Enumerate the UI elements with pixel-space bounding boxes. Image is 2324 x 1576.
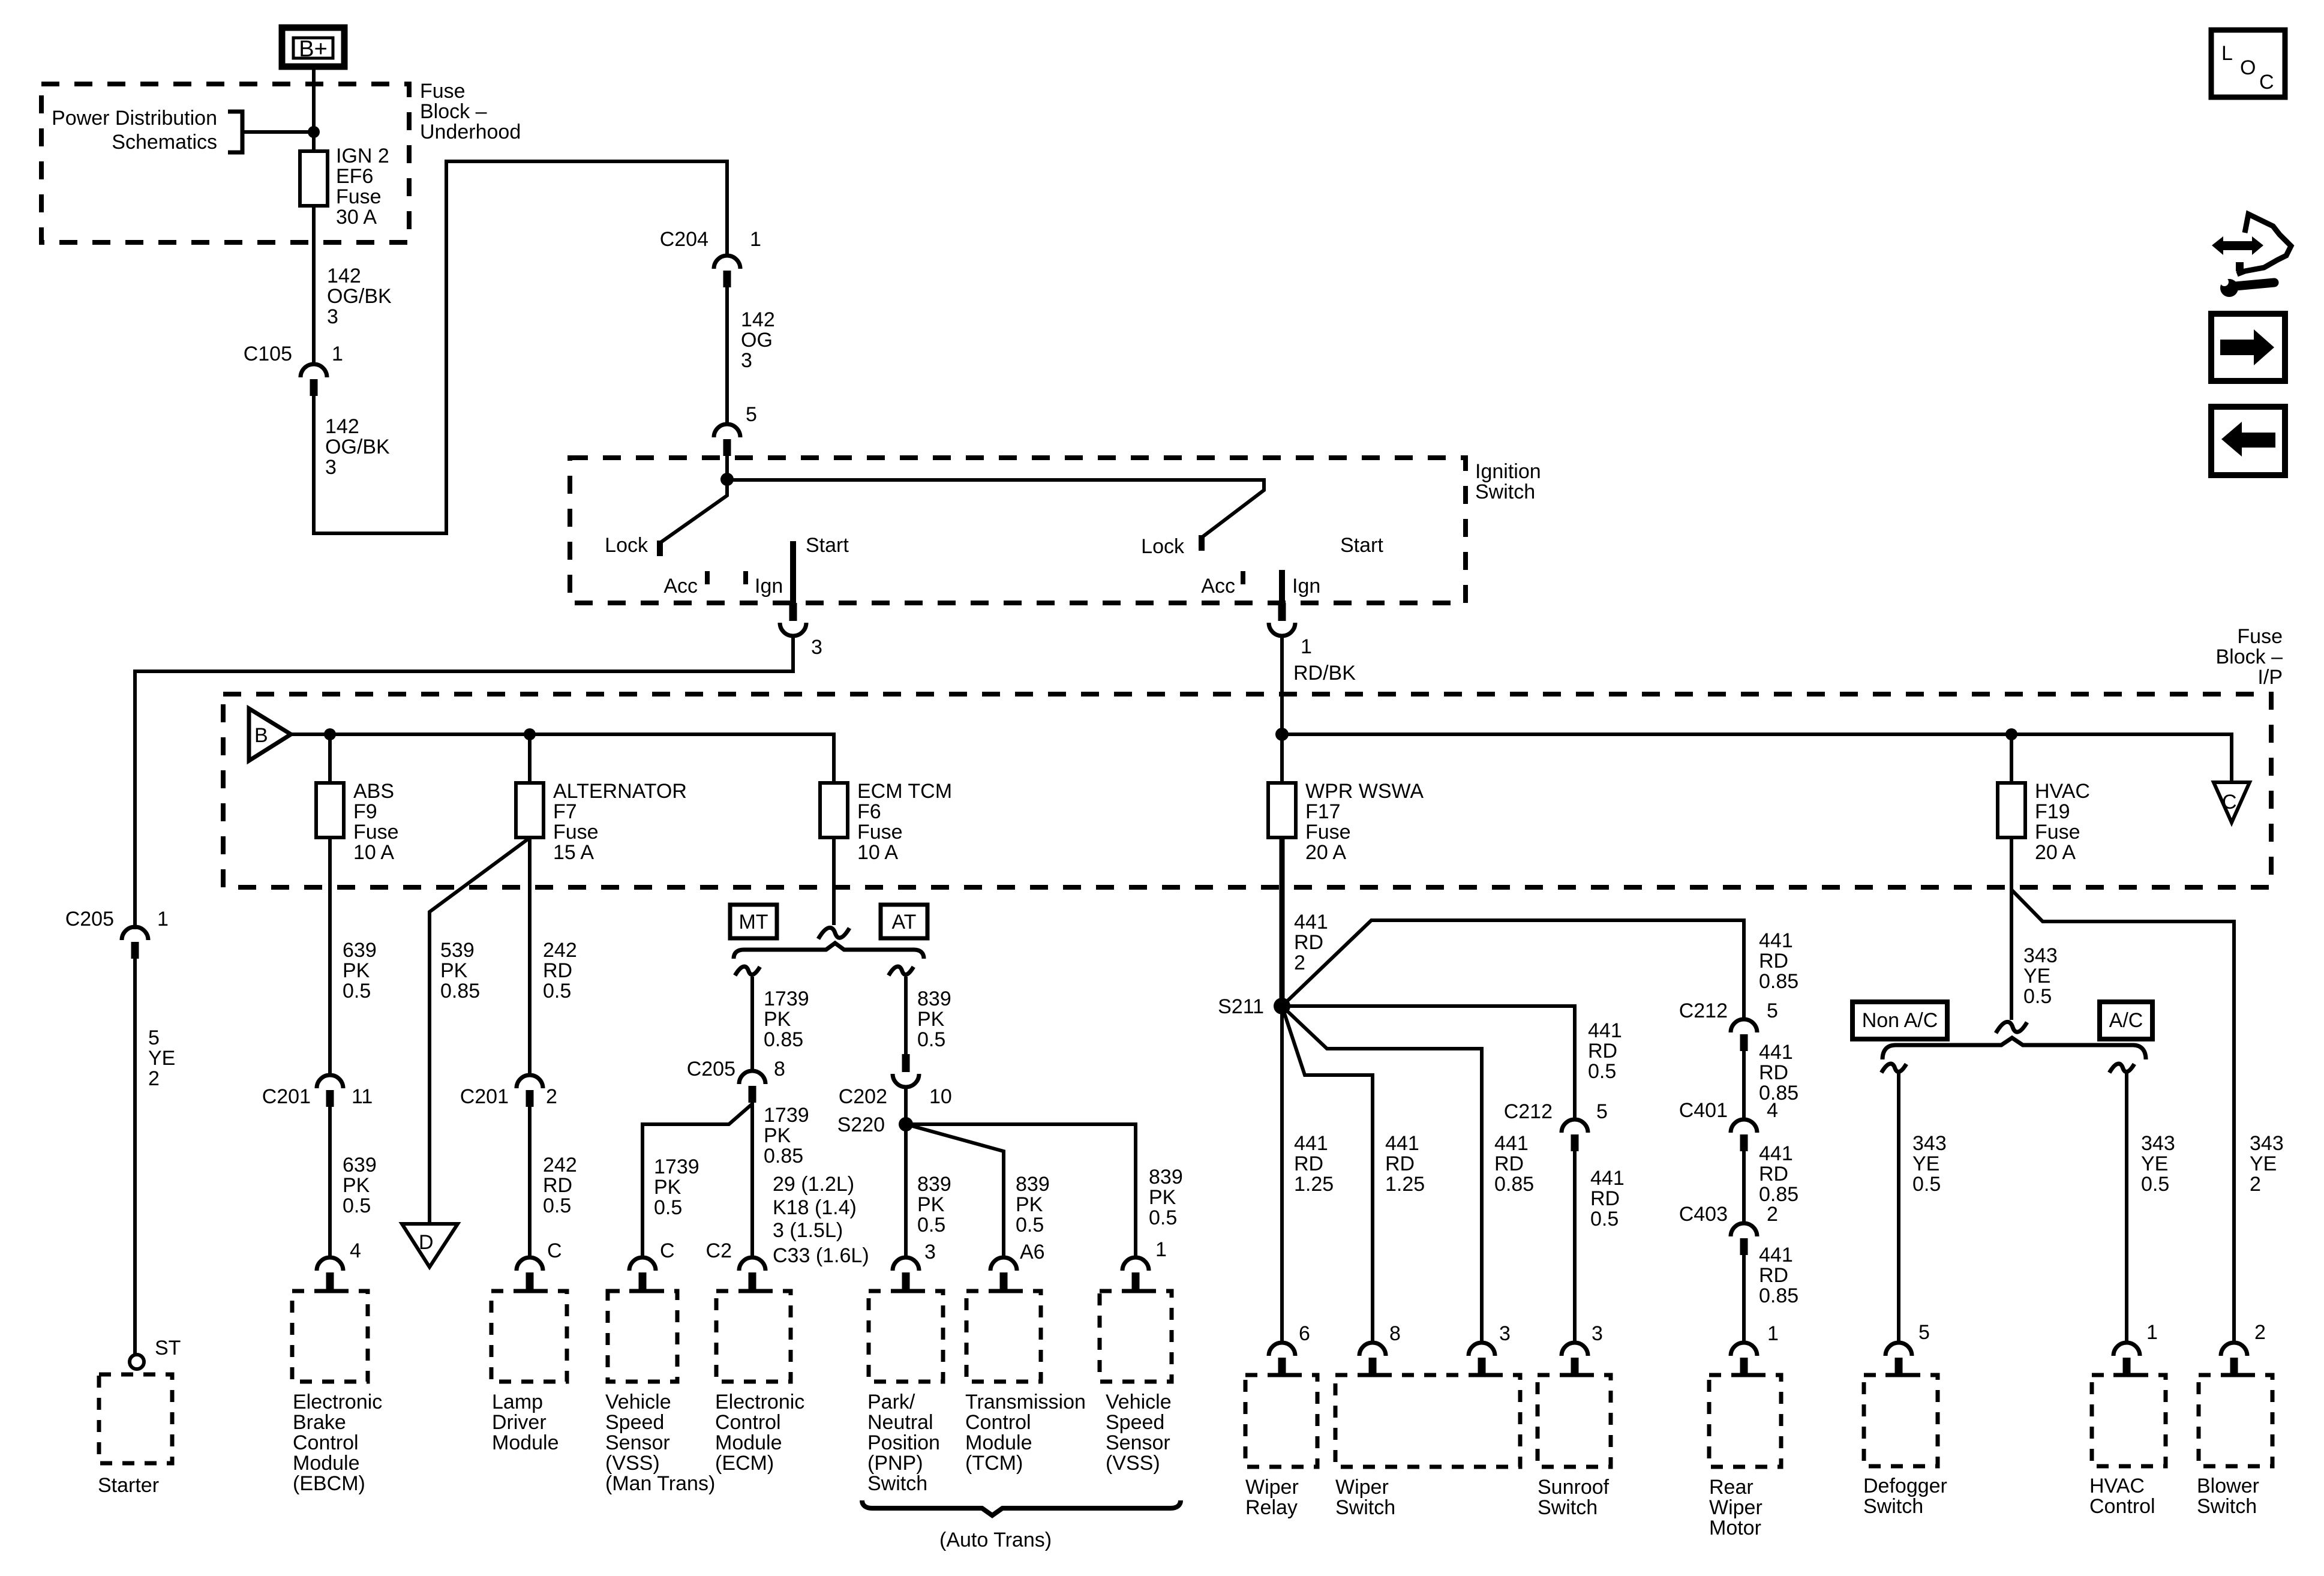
- svg-text:3: 3: [327, 305, 338, 328]
- svg-text:1: 1: [1155, 1238, 1167, 1261]
- svg-text:Fuse: Fuse: [336, 185, 382, 208]
- svg-text:Vehicle: Vehicle: [605, 1391, 671, 1413]
- svg-text:(EBCM): (EBCM): [293, 1472, 365, 1495]
- svg-text:Rear: Rear: [1709, 1476, 1753, 1499]
- svg-text:PK: PK: [1149, 1186, 1176, 1209]
- svg-text:Sunroof: Sunroof: [1538, 1476, 1610, 1499]
- svg-text:0.5: 0.5: [543, 980, 571, 1002]
- svg-text:5: 5: [148, 1026, 160, 1049]
- svg-text:4: 4: [1767, 1099, 1778, 1122]
- svg-text:(TCM): (TCM): [965, 1452, 1023, 1475]
- svg-text:Acc: Acc: [1201, 575, 1235, 598]
- svg-text:0.5: 0.5: [654, 1196, 682, 1219]
- svg-text:441: 441: [1385, 1132, 1419, 1155]
- svg-text:C205: C205: [65, 908, 114, 930]
- svg-text:2: 2: [546, 1085, 557, 1108]
- svg-text:C403: C403: [1679, 1203, 1728, 1226]
- svg-text:B: B: [254, 724, 268, 747]
- svg-text:10 A: 10 A: [353, 841, 394, 864]
- svg-text:1: 1: [1767, 1322, 1779, 1345]
- svg-text:0.85: 0.85: [1759, 970, 1798, 993]
- svg-text:2: 2: [1294, 951, 1305, 974]
- svg-text:HVAC: HVAC: [2035, 780, 2090, 803]
- svg-text:2: 2: [2254, 1321, 2266, 1344]
- svg-text:ALTERNATOR: ALTERNATOR: [553, 780, 687, 803]
- svg-text:0.85: 0.85: [1494, 1173, 1534, 1196]
- svg-text:5: 5: [1596, 1100, 1608, 1123]
- svg-text:441: 441: [1494, 1132, 1529, 1155]
- svg-text:839: 839: [917, 1173, 951, 1196]
- svg-text:0.5: 0.5: [1590, 1208, 1619, 1230]
- svg-text:Control: Control: [293, 1431, 359, 1454]
- svg-text:Driver: Driver: [492, 1411, 547, 1434]
- svg-text:10 A: 10 A: [857, 841, 898, 864]
- svg-text:Control: Control: [965, 1411, 1031, 1434]
- svg-text:1: 1: [2146, 1321, 2158, 1344]
- svg-text:(VSS): (VSS): [1106, 1452, 1160, 1475]
- svg-text:242: 242: [543, 939, 577, 962]
- svg-text:F19: F19: [2035, 800, 2070, 823]
- svg-text:2: 2: [1767, 1203, 1778, 1226]
- svg-text:C105: C105: [244, 343, 292, 365]
- svg-text:441: 441: [1759, 1041, 1793, 1064]
- svg-text:RD: RD: [1385, 1152, 1415, 1175]
- svg-text:441: 441: [1759, 929, 1793, 952]
- svg-text:RD: RD: [1759, 1163, 1788, 1185]
- svg-text:RD: RD: [1590, 1187, 1620, 1210]
- svg-text:ECM TCM: ECM TCM: [857, 780, 952, 803]
- svg-text:Park/: Park/: [867, 1391, 915, 1413]
- svg-text:Lock: Lock: [1141, 535, 1185, 558]
- svg-text:Speed: Speed: [605, 1411, 664, 1434]
- svg-text:PK: PK: [917, 1193, 945, 1216]
- svg-text:142: 142: [741, 308, 775, 331]
- svg-text:Wiper: Wiper: [1245, 1476, 1299, 1499]
- svg-text:20 A: 20 A: [1305, 841, 1346, 864]
- svg-text:0.5: 0.5: [917, 1028, 945, 1051]
- svg-text:(PNP): (PNP): [867, 1452, 923, 1475]
- svg-text:C212: C212: [1504, 1100, 1553, 1123]
- svg-text:Power Distribution: Power Distribution: [52, 107, 217, 130]
- svg-text:RD/BK: RD/BK: [1293, 662, 1356, 685]
- svg-text:PK: PK: [1016, 1193, 1043, 1216]
- svg-text:PK: PK: [343, 959, 370, 982]
- svg-text:Fuse: Fuse: [2035, 821, 2080, 843]
- svg-text:441: 441: [1588, 1019, 1622, 1042]
- svg-text:3: 3: [325, 456, 337, 479]
- svg-text:Switch: Switch: [2197, 1495, 2257, 1518]
- svg-text:Ign: Ign: [1292, 575, 1320, 598]
- svg-text:C212: C212: [1679, 999, 1728, 1022]
- svg-text:YE: YE: [2141, 1152, 2168, 1175]
- svg-text:Control: Control: [2089, 1495, 2155, 1518]
- svg-text:Speed: Speed: [1106, 1411, 1164, 1434]
- svg-text:Lock: Lock: [605, 534, 648, 557]
- svg-text:5: 5: [1767, 999, 1778, 1022]
- svg-text:D: D: [419, 1231, 434, 1254]
- svg-text:1739: 1739: [764, 987, 809, 1010]
- svg-text:4: 4: [350, 1239, 361, 1262]
- svg-text:11: 11: [352, 1085, 373, 1108]
- svg-text:C: C: [2222, 791, 2237, 813]
- svg-text:6: 6: [1299, 1322, 1310, 1345]
- svg-text:1: 1: [332, 343, 343, 365]
- svg-text:441: 441: [1294, 911, 1328, 933]
- svg-text:20 A: 20 A: [2035, 841, 2076, 864]
- svg-text:C205: C205: [687, 1058, 735, 1080]
- svg-text:2: 2: [2250, 1173, 2261, 1196]
- svg-text:A6: A6: [1020, 1241, 1045, 1263]
- svg-text:343: 343: [2141, 1132, 2175, 1155]
- svg-text:C33 (1.6L): C33 (1.6L): [773, 1244, 869, 1267]
- svg-text:Schematics: Schematics: [112, 131, 217, 154]
- svg-text:PK: PK: [440, 959, 468, 982]
- svg-text:F9: F9: [353, 800, 377, 823]
- svg-text:Fuse: Fuse: [1305, 821, 1351, 843]
- svg-text:OG/BK: OG/BK: [327, 285, 392, 308]
- svg-text:Blower: Blower: [2197, 1475, 2259, 1497]
- svg-text:0.5: 0.5: [343, 1194, 371, 1217]
- svg-text:C2: C2: [706, 1239, 732, 1262]
- svg-text:0.5: 0.5: [2141, 1173, 2169, 1196]
- svg-text:0.5: 0.5: [917, 1214, 945, 1236]
- svg-text:3: 3: [1499, 1322, 1511, 1345]
- svg-text:0.5: 0.5: [2023, 985, 2052, 1008]
- svg-text:441: 441: [1759, 1244, 1793, 1266]
- svg-text:Switch: Switch: [1475, 481, 1535, 503]
- svg-text:0.85: 0.85: [440, 980, 480, 1002]
- svg-text:(ECM): (ECM): [715, 1452, 774, 1475]
- svg-text:3: 3: [924, 1241, 936, 1263]
- svg-text:30 A: 30 A: [336, 206, 377, 229]
- svg-text:Control: Control: [715, 1411, 781, 1434]
- svg-text:C201: C201: [262, 1085, 311, 1108]
- svg-text:(VSS): (VSS): [605, 1452, 660, 1475]
- svg-text:RD: RD: [1759, 950, 1788, 972]
- svg-text:Neutral: Neutral: [867, 1411, 933, 1434]
- svg-text:C: C: [660, 1239, 675, 1262]
- svg-text:5: 5: [1918, 1321, 1930, 1344]
- svg-text:Electronic: Electronic: [715, 1391, 804, 1413]
- svg-text:1739: 1739: [654, 1155, 699, 1178]
- svg-text:IGN 2: IGN 2: [336, 145, 389, 167]
- svg-text:Switch: Switch: [1335, 1496, 1395, 1519]
- svg-text:YE: YE: [2250, 1152, 2277, 1175]
- svg-text:3: 3: [1592, 1322, 1603, 1345]
- svg-text:0.5: 0.5: [543, 1194, 571, 1217]
- svg-text:Wiper: Wiper: [1709, 1496, 1762, 1519]
- svg-text:10: 10: [929, 1085, 952, 1108]
- svg-text:0.5: 0.5: [343, 980, 371, 1002]
- svg-text:RD: RD: [1759, 1061, 1788, 1084]
- svg-text:OG/BK: OG/BK: [325, 436, 390, 458]
- svg-text:142: 142: [327, 265, 361, 287]
- svg-text:8: 8: [774, 1058, 785, 1080]
- svg-text:Module: Module: [965, 1431, 1032, 1454]
- svg-text:S211: S211: [1218, 995, 1264, 1018]
- svg-text:142: 142: [325, 415, 359, 438]
- svg-text:839: 839: [1149, 1166, 1183, 1188]
- svg-text:Electronic: Electronic: [293, 1391, 382, 1413]
- svg-text:Module: Module: [492, 1431, 559, 1454]
- svg-text:839: 839: [917, 987, 951, 1010]
- svg-text:PK: PK: [654, 1176, 681, 1199]
- svg-text:1: 1: [157, 908, 169, 930]
- svg-text:RD: RD: [1588, 1040, 1617, 1062]
- svg-text:Brake: Brake: [293, 1411, 346, 1434]
- svg-text:Switch: Switch: [1538, 1496, 1598, 1519]
- svg-text:Acc: Acc: [663, 575, 698, 598]
- svg-text:S220: S220: [837, 1113, 885, 1136]
- svg-text:I/P: I/P: [2257, 666, 2283, 689]
- svg-text:0.5: 0.5: [1016, 1214, 1044, 1236]
- svg-text:HVAC: HVAC: [2089, 1475, 2145, 1497]
- svg-text:29 (1.2L): 29 (1.2L): [773, 1173, 854, 1196]
- svg-text:PK: PK: [764, 1124, 791, 1147]
- svg-text:Motor: Motor: [1709, 1517, 1761, 1539]
- svg-text:1.25: 1.25: [1294, 1173, 1334, 1196]
- svg-text:539: 539: [440, 939, 475, 962]
- svg-text:1739: 1739: [764, 1104, 809, 1127]
- svg-text:F17: F17: [1305, 800, 1341, 823]
- svg-text:Lamp: Lamp: [492, 1391, 543, 1413]
- svg-text:C: C: [2259, 71, 2274, 94]
- svg-text:343: 343: [1912, 1132, 1947, 1155]
- svg-text:3: 3: [741, 349, 752, 372]
- svg-text:8: 8: [1389, 1322, 1401, 1345]
- svg-text:Fuse: Fuse: [553, 821, 599, 843]
- svg-text:3: 3: [811, 636, 822, 659]
- svg-text:15 A: 15 A: [553, 841, 594, 864]
- svg-text:Defogger: Defogger: [1863, 1475, 1947, 1497]
- svg-text:YE: YE: [2023, 965, 2050, 987]
- svg-text:AT: AT: [892, 911, 917, 933]
- svg-text:1: 1: [750, 228, 761, 251]
- svg-text:0.5: 0.5: [1149, 1206, 1177, 1229]
- svg-text:Block –: Block –: [2216, 646, 2283, 668]
- svg-text:0.85: 0.85: [764, 1028, 803, 1051]
- svg-text:Start: Start: [806, 534, 849, 557]
- svg-text:Non A/C: Non A/C: [1862, 1009, 1938, 1032]
- svg-text:A/C: A/C: [2109, 1009, 2143, 1032]
- svg-text:441: 441: [1590, 1167, 1625, 1190]
- svg-text:RD: RD: [543, 959, 572, 982]
- svg-text:C201: C201: [460, 1085, 509, 1108]
- svg-text:(Man Trans): (Man Trans): [605, 1472, 715, 1495]
- svg-text:O: O: [2240, 56, 2256, 79]
- svg-text:C: C: [547, 1239, 562, 1262]
- svg-text:ST: ST: [155, 1337, 181, 1359]
- svg-text:Ign: Ign: [755, 575, 783, 598]
- svg-text:0.5: 0.5: [1912, 1173, 1941, 1196]
- svg-text:PK: PK: [343, 1174, 370, 1197]
- svg-text:RD: RD: [1759, 1264, 1788, 1287]
- svg-text:C202: C202: [839, 1085, 887, 1108]
- svg-text:YE: YE: [1912, 1152, 1939, 1175]
- svg-text:Fuse: Fuse: [857, 821, 903, 843]
- svg-text:Sensor: Sensor: [1106, 1431, 1170, 1454]
- svg-text:ABS: ABS: [353, 780, 394, 803]
- svg-text:0.85: 0.85: [1759, 1284, 1798, 1307]
- svg-text:Module: Module: [715, 1431, 782, 1454]
- svg-text:1: 1: [1301, 635, 1312, 658]
- svg-text:343: 343: [2023, 944, 2058, 967]
- svg-text:0.85: 0.85: [764, 1145, 803, 1167]
- svg-text:242: 242: [543, 1154, 577, 1176]
- svg-text:Fuse: Fuse: [353, 821, 399, 843]
- svg-text:C204: C204: [660, 228, 708, 251]
- svg-text:Sensor: Sensor: [605, 1431, 670, 1454]
- svg-text:Vehicle: Vehicle: [1106, 1391, 1172, 1413]
- svg-text:Start: Start: [1340, 534, 1383, 557]
- svg-text:K18 (1.4): K18 (1.4): [773, 1196, 857, 1219]
- svg-text:PK: PK: [917, 1008, 945, 1031]
- svg-text:Underhood: Underhood: [420, 121, 521, 143]
- svg-text:5: 5: [746, 403, 757, 426]
- svg-text:Fuse: Fuse: [2237, 625, 2283, 648]
- svg-text:Transmission: Transmission: [965, 1391, 1086, 1413]
- svg-text:C401: C401: [1679, 1099, 1728, 1122]
- svg-text:639: 639: [343, 939, 377, 962]
- svg-text:639: 639: [343, 1154, 377, 1176]
- svg-text:0.5: 0.5: [1588, 1060, 1616, 1083]
- svg-text:Module: Module: [293, 1452, 360, 1475]
- svg-text:B+: B+: [299, 37, 328, 62]
- svg-text:Fuse: Fuse: [420, 80, 466, 103]
- svg-text:RD: RD: [543, 1174, 572, 1197]
- svg-text:OG: OG: [741, 329, 773, 352]
- svg-text:441: 441: [1759, 1142, 1793, 1165]
- svg-text:1.25: 1.25: [1385, 1173, 1425, 1196]
- svg-text:(Auto Trans): (Auto Trans): [939, 1529, 1052, 1551]
- svg-text:RD: RD: [1494, 1152, 1524, 1175]
- svg-text:Switch: Switch: [1863, 1495, 1923, 1518]
- svg-text:L: L: [2221, 42, 2233, 65]
- svg-text:Switch: Switch: [867, 1472, 927, 1495]
- svg-text:F7: F7: [553, 800, 577, 823]
- svg-text:441: 441: [1294, 1132, 1328, 1155]
- svg-text:2: 2: [148, 1067, 160, 1090]
- svg-text:WPR WSWA: WPR WSWA: [1305, 780, 1424, 803]
- svg-text:839: 839: [1016, 1173, 1050, 1196]
- svg-text:EF6: EF6: [336, 165, 373, 188]
- svg-text:Position: Position: [867, 1431, 940, 1454]
- svg-text:MT: MT: [738, 911, 768, 933]
- svg-text:RD: RD: [1294, 1152, 1323, 1175]
- svg-text:Wiper: Wiper: [1335, 1476, 1389, 1499]
- svg-text:0.85: 0.85: [1759, 1183, 1798, 1206]
- svg-text:PK: PK: [764, 1008, 791, 1031]
- svg-text:343: 343: [2250, 1132, 2284, 1155]
- svg-text:Starter: Starter: [98, 1474, 159, 1497]
- svg-text:0.85: 0.85: [1759, 1082, 1798, 1104]
- svg-text:Relay: Relay: [1245, 1496, 1298, 1519]
- svg-text:Ignition: Ignition: [1475, 460, 1541, 483]
- svg-text:Block –: Block –: [420, 100, 487, 123]
- svg-text:3 (1.5L): 3 (1.5L): [773, 1219, 843, 1242]
- svg-text:F6: F6: [857, 800, 881, 823]
- svg-text:RD: RD: [1294, 931, 1323, 954]
- svg-text:YE: YE: [148, 1047, 175, 1070]
